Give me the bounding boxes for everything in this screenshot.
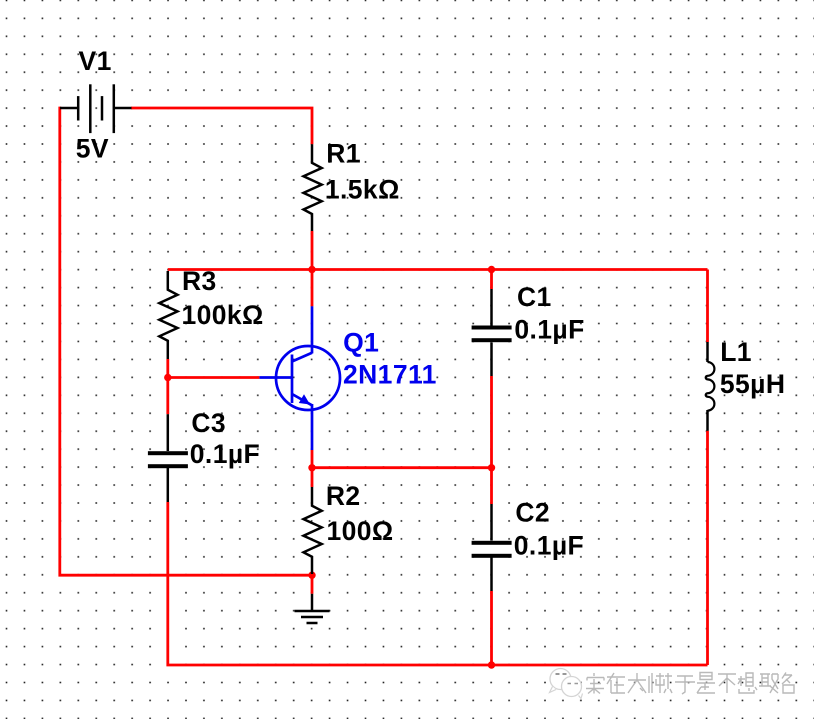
svg-text:R1: R1 — [326, 139, 361, 169]
svg-text:100Ω: 100Ω — [327, 516, 394, 546]
svg-text:C1: C1 — [517, 282, 552, 312]
svg-text:R2: R2 — [326, 481, 361, 511]
svg-text:2N1711: 2N1711 — [343, 360, 437, 390]
svg-text:Q1: Q1 — [343, 328, 379, 358]
svg-text:0.1µF: 0.1µF — [514, 531, 584, 561]
svg-text:5V: 5V — [76, 134, 109, 164]
svg-text:V1: V1 — [79, 46, 112, 76]
svg-text:C3: C3 — [191, 408, 226, 438]
svg-text:55µH: 55µH — [720, 369, 785, 399]
svg-text:0.1µF: 0.1µF — [190, 439, 260, 469]
svg-text:C2: C2 — [515, 498, 550, 528]
svg-text:L1: L1 — [720, 337, 752, 367]
svg-text:0.1µF: 0.1µF — [514, 315, 584, 345]
svg-text:1.5kΩ: 1.5kΩ — [325, 174, 400, 204]
svg-text:100kΩ: 100kΩ — [182, 300, 264, 330]
svg-text:R3: R3 — [182, 266, 217, 296]
